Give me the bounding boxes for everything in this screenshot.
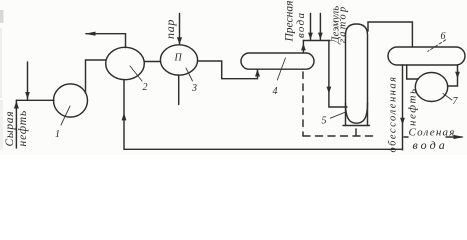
- leader line 6: [428, 40, 446, 52]
- svg-text:5: 5: [322, 116, 327, 127]
- svg-text:обессоленная: обессоленная: [388, 75, 399, 152]
- wire mixer 4 riser to header with up arrow: [301, 41, 306, 54]
- wire drum 6 to separator 7 right side with down arrow: [448, 65, 460, 86]
- leader line 3: [186, 68, 193, 81]
- svg-text:6: 6: [441, 31, 446, 42]
- leader line 5: [330, 112, 345, 118]
- wire column 5 overhead line into drum 6: [368, 22, 412, 47]
- svg-text:нефть: нефть: [17, 110, 29, 147]
- wire demulsifier down arrow: [318, 14, 323, 40]
- wire header drop into electrodehydrator 5 with down arrow: [327, 41, 348, 108]
- svg-text:3: 3: [191, 83, 197, 94]
- wire fresh water down arrow: [308, 14, 313, 40]
- heat exchanger 2: [106, 47, 145, 79]
- wire salt water arrow: [404, 135, 464, 139]
- drum 6: [388, 47, 465, 65]
- svg-text:Соленая: Соленая: [409, 127, 456, 139]
- svg-text:1: 1: [55, 129, 60, 140]
- wire injection header: [303, 40, 330, 42]
- svg-text:2: 2: [143, 82, 148, 93]
- svg-text:гатор: гатор: [338, 5, 349, 43]
- pump 1: [54, 84, 88, 117]
- wire steam line with down arrow into heater 3: [177, 14, 182, 45]
- leader line 2: [130, 66, 142, 81]
- wire small dash under column 5: [355, 129, 357, 135]
- dished bottom of column 5: [346, 103, 368, 123]
- svg-text:нефть: нефть: [407, 87, 419, 126]
- wire connector exchanger 2 to heater 3: [144, 61, 160, 63]
- scan edge artifact: [0, 10, 4, 150]
- wire recycle bottom line to exchanger 2 with up arrow: [122, 80, 403, 150]
- leader line 1: [61, 106, 70, 125]
- electrodehydrator 5 column shell: [346, 24, 368, 126]
- wire crude oil horizontal into pump 1: [16, 99, 54, 101]
- wire exchanger 2 top outlet with left arrow: [85, 32, 126, 48]
- svg-text:пар: пар: [163, 19, 177, 39]
- wire desalted oil line down from drum 6 with down arrow: [400, 65, 405, 150]
- separator 7: [415, 73, 447, 102]
- label Деэмульгатор: [330, 5, 349, 45]
- svg-text:вода: вода: [413, 138, 448, 152]
- label Соленая вода: [409, 127, 456, 153]
- svg-text:вода: вода: [295, 12, 307, 38]
- wire crude oil inlet vertical with up arrow: [14, 100, 19, 148]
- svg-text:Пресная: Пресная: [284, 1, 296, 43]
- svg-text:Сырая: Сырая: [4, 111, 16, 147]
- wire condensate drain below heater 3: [178, 75, 180, 105]
- wire branch stub with down arrow onto crude line: [25, 62, 30, 100]
- dashed boundary left edge: [302, 72, 304, 136]
- label Сырая нефть: [4, 110, 29, 147]
- leader line 7: [443, 94, 452, 101]
- dashed boundary bottom edge: [303, 135, 377, 137]
- svg-text:4: 4: [273, 86, 278, 97]
- label обессоленная нефть: [388, 75, 419, 152]
- wire heater 3 outlet jog into mixer 4 bottom with up arrow: [198, 61, 261, 79]
- wire drum 6 to separator 7 left side: [407, 65, 419, 79]
- base line of column 5: [343, 125, 370, 127]
- heater 3: [160, 45, 197, 75]
- svg-text:П: П: [174, 53, 183, 64]
- label Пресная вода: [284, 1, 308, 43]
- mixer 4: [241, 53, 314, 69]
- wire pump 1 discharge riser to exchanger 2: [86, 60, 106, 93]
- svg-text:7: 7: [453, 96, 459, 107]
- leader line 4: [277, 58, 285, 80]
